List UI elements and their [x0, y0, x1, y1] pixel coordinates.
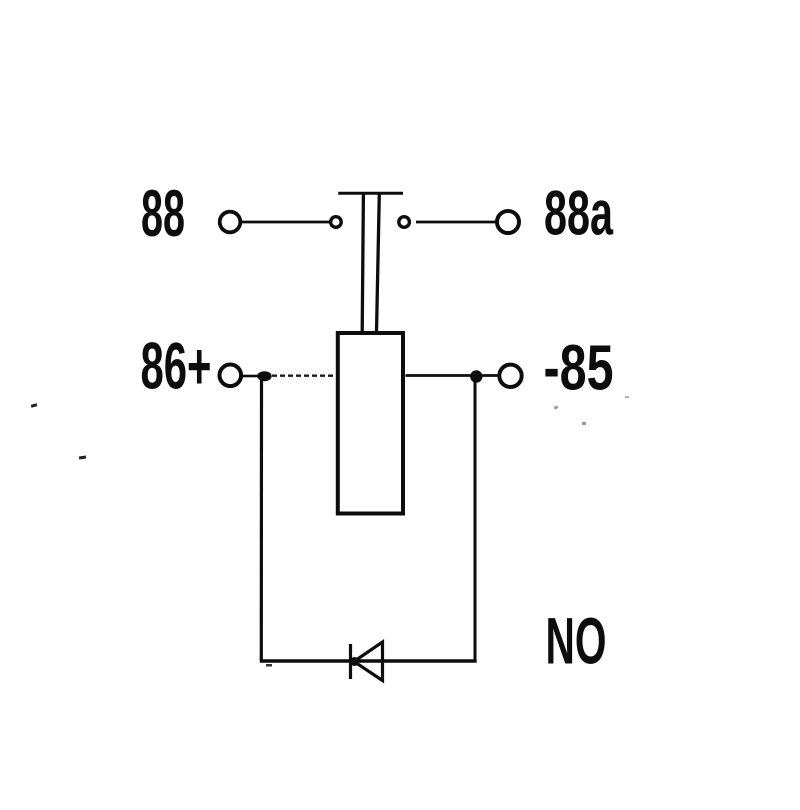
terminal circle 85: [499, 365, 521, 387]
scan speck 2: [79, 456, 86, 460]
scan speck 3: [554, 405, 559, 410]
scan speck 5: [625, 396, 629, 398]
terminal circle 88: [220, 212, 241, 233]
svg-text:NO: NO: [546, 604, 607, 678]
armature top bar: [338, 192, 403, 195]
terminal circle 88a: [497, 211, 519, 233]
armature left plunger line: [362, 195, 363, 333]
diode V1 tip blob: [350, 657, 359, 666]
diode V1 triangle: [354, 642, 383, 681]
contact circle left (pin 88): [331, 217, 342, 228]
junction dot right: [470, 370, 482, 382]
junction dot left: [257, 371, 271, 381]
wire left junction to coil (broken scan stroke): [272, 375, 336, 377]
contact circle right (pin 88a): [399, 217, 410, 228]
armature right plunger line: [377, 195, 380, 333]
scan speck 4: [582, 422, 586, 425]
wire coil to right junction: [406, 374, 498, 377]
coil K1 body: [338, 333, 403, 514]
svg-text:88: 88: [141, 177, 185, 250]
svg-text:86+: 86+: [141, 330, 212, 403]
wire right vertical of flyback loop: [474, 380, 477, 661]
diode V1 cathode bar: [349, 644, 352, 679]
svg-text:-85: -85: [544, 332, 614, 404]
wire right contact to 88a terminal: [416, 221, 496, 224]
wire bottom of flyback loop: [260, 659, 477, 662]
terminal circle 86: [220, 365, 242, 387]
scan speck bottom left corner: [266, 664, 272, 667]
svg-text:88a: 88a: [544, 179, 614, 249]
wire 88 terminal to left contact: [242, 221, 330, 224]
scan speck 1: [31, 403, 38, 407]
wire 86 terminal to left junction: [243, 375, 259, 378]
wire left vertical of flyback loop: [260, 378, 263, 661]
